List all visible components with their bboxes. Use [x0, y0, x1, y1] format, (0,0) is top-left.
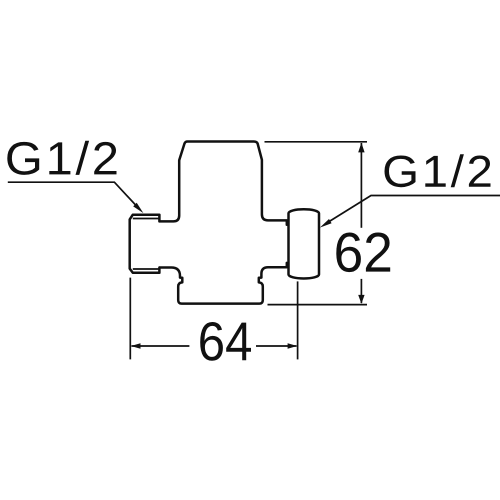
dimension extension line bottom (62): [268, 304, 368, 306]
left leader arrowhead: [133, 203, 143, 213]
right cylinder port: [289, 209, 320, 278]
right leader line: [329, 196, 500, 222]
right leader arrowhead: [320, 219, 332, 228]
62 text: [336, 233, 390, 273]
64 text: [200, 322, 251, 361]
left G1/2 label text: [7, 141, 116, 175]
dimension extension line top (62): [265, 141, 368, 143]
64 left extension line: [129, 278, 131, 360]
right G1/2 label text: [385, 154, 491, 187]
fitting body outline (dome, neck, lower block): [159, 142, 286, 304]
left arm (threaded port): [130, 215, 160, 273]
62 arrow up: [358, 143, 364, 153]
62 dimension line vertical: [360, 143, 362, 228]
64 arrow right: [288, 343, 298, 348]
64 dimension line: [132, 345, 190, 347]
64 right extension line: [297, 281, 299, 359]
64 arrow left: [131, 343, 141, 348]
62 arrow down: [358, 295, 364, 304]
thread crest lines on left arm: [133, 219, 160, 270]
left leader line: [8, 182, 140, 209]
